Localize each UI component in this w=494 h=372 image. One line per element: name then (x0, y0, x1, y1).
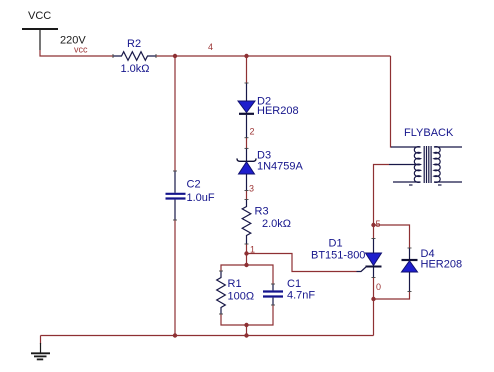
wire node 1 to D1 gate (247, 254, 357, 272)
svg-text:2: 2 (250, 127, 255, 137)
diode D2 (238, 83, 255, 138)
wire box bottom to rail (246, 325, 248, 336)
svg-text:C2: C2 (187, 179, 201, 191)
capacitor C2 (166, 171, 186, 220)
wire top rail down to C2 (174, 56, 176, 171)
wire node 3 (246, 191, 248, 200)
svg-text:1N4759A: 1N4759A (257, 161, 304, 173)
svg-text:HER208: HER208 (257, 105, 299, 117)
wire node 4 down to D2 (246, 56, 248, 83)
wire node 5 to D1 (373, 225, 375, 239)
svg-text:D1: D1 (329, 238, 343, 250)
junction node 1 (244, 251, 248, 255)
ground (31, 336, 50, 360)
wire R3 to node 1 junction (246, 244, 248, 265)
wire D1 to node 0 (373, 278, 375, 300)
wire flyback mid pin to node 5 (374, 165, 390, 226)
pin end ticks (113, 54, 412, 314)
SCR D1 (357, 239, 382, 278)
junction node 5 (371, 223, 375, 227)
resistor R3 (242, 200, 251, 245)
diode D4 (402, 248, 418, 292)
svg-text:R1: R1 (228, 278, 242, 290)
junction at D2 branch (244, 54, 248, 58)
svg-text:1.0kΩ: 1.0kΩ (121, 63, 150, 75)
junction box top (244, 263, 248, 267)
capacitor C1 (263, 284, 283, 305)
svg-text:C1: C1 (287, 278, 301, 290)
resistor R2 (113, 52, 156, 61)
svg-text:R2: R2 (127, 38, 141, 50)
svg-text:VCC: VCC (28, 10, 51, 22)
junction node 0 (371, 297, 375, 301)
svg-text:FLYBACK: FLYBACK (404, 127, 454, 139)
wire node 5 to D4 branch (374, 225, 410, 248)
svg-text:100Ω: 100Ω (228, 291, 255, 303)
wire D4 to node 0 (374, 292, 410, 300)
wire VCC to R2 (40, 50, 113, 56)
junction at C2 branch (173, 54, 177, 58)
svg-text:4: 4 (208, 42, 213, 52)
svg-text:vcc: vcc (74, 45, 88, 55)
svg-text:5: 5 (376, 219, 381, 229)
svg-text:2.0kΩ: 2.0kΩ (262, 218, 291, 230)
power symbol VCC (22, 29, 58, 50)
svg-text:3: 3 (249, 184, 254, 194)
transformer FLYBACK (389, 146, 462, 185)
svg-text:BT151-800: BT151-800 (311, 250, 365, 262)
svg-text:4.7nF: 4.7nF (287, 290, 315, 302)
wire node 2 (246, 138, 248, 149)
junction box bottom (244, 323, 248, 327)
junction rail C2 (173, 333, 177, 337)
zener diode D3 (237, 148, 256, 190)
resistor R1 (217, 271, 226, 314)
wire C2 to bottom rail (174, 220, 176, 336)
bottom rail wire (41, 335, 374, 337)
svg-text:R3: R3 (255, 206, 269, 218)
svg-text:1.0uF: 1.0uF (187, 192, 215, 204)
wire top rail to flyback (391, 56, 392, 147)
junction rail box (244, 333, 248, 337)
wire R1/C1 box (221, 265, 273, 325)
svg-text:0: 0 (376, 282, 381, 292)
svg-text:HER208: HER208 (421, 259, 463, 271)
wire R2 to node 4 rail (156, 55, 391, 57)
wire node 0 to bottom rail (373, 299, 375, 336)
